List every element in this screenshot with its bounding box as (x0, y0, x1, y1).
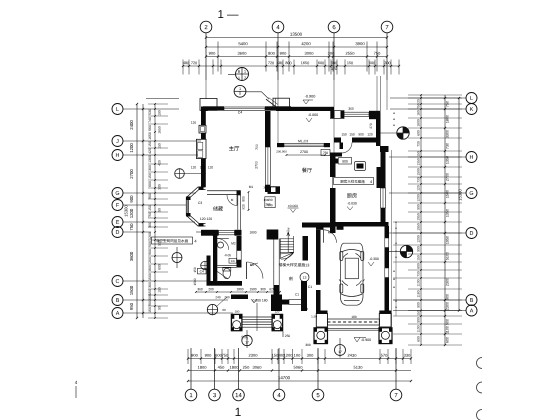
svg-text:270: 270 (369, 123, 373, 129)
svg-text:800: 800 (285, 61, 291, 65)
garage apron wall piece (277, 300, 289, 305)
svg-text:C1: C1 (295, 292, 299, 296)
svg-text:2700: 2700 (255, 161, 259, 169)
svg-text:2430: 2430 (348, 353, 358, 358)
detail marker circle B17 top (236, 68, 249, 81)
svg-text:3600: 3600 (238, 51, 248, 56)
svg-text:±0.000: ±0.000 (288, 204, 298, 208)
svg-text:150: 150 (417, 310, 421, 316)
svg-text:620: 620 (269, 287, 275, 291)
grid bubble L right (466, 93, 477, 104)
svg-text:B: B (116, 298, 120, 304)
svg-text:1500: 1500 (417, 168, 421, 176)
storage east wall double line (237, 195, 239, 230)
svg-text:1800: 1800 (230, 365, 240, 370)
corner column box top-left (200, 99, 217, 111)
main hall top wall (203, 106, 224, 110)
svg-text:E: E (116, 220, 120, 226)
garage apron lines (328, 327, 380, 329)
svg-text:上: 上 (286, 227, 291, 232)
svg-text:300: 300 (384, 61, 390, 65)
svg-text:150: 150 (148, 141, 152, 147)
svg-text:240: 240 (215, 295, 220, 299)
svg-text:250: 250 (285, 334, 291, 338)
svg-text:900: 900 (191, 353, 198, 358)
svg-text:500: 500 (148, 241, 152, 247)
svg-text:A: A (470, 308, 474, 314)
stair treads (280, 238, 293, 240)
kitchen counter block (377, 167, 381, 188)
vestibule west outer wall (207, 256, 211, 286)
grid bubble E left (112, 217, 123, 228)
svg-text:1: 1 (239, 87, 241, 91)
grid bubble H left (112, 150, 123, 161)
grid line D right segment (196, 231, 211, 233)
svg-text:750: 750 (148, 212, 152, 218)
svg-text:5400: 5400 (238, 41, 248, 46)
svg-text:360: 360 (197, 287, 203, 291)
svg-text:330: 330 (404, 353, 411, 358)
grid bubble A right (466, 305, 477, 316)
svg-text:200: 200 (148, 257, 152, 263)
svg-text:1800: 1800 (249, 230, 256, 234)
left section marker circle (172, 253, 182, 263)
svg-text:3600: 3600 (129, 251, 134, 261)
svg-text:C1: C1 (308, 285, 312, 289)
bay junction blocks (199, 187, 204, 190)
svg-text:2550: 2550 (346, 51, 356, 56)
left dim chain fine (154, 104, 156, 318)
top dim line total 13500 (206, 37, 387, 39)
svg-text:17: 17 (338, 350, 342, 354)
bathroom top wall piers and window (212, 230, 219, 236)
svg-text:720: 720 (191, 61, 197, 65)
svg-text:厨房: 厨房 (347, 192, 357, 199)
grid bubble 2 top (200, 21, 212, 33)
svg-text:3000: 3000 (305, 51, 315, 56)
svg-text:1.50: 1.50 (311, 314, 317, 318)
svg-text:800: 800 (158, 264, 162, 270)
top grid stems (205, 33, 207, 80)
svg-text:300: 300 (305, 343, 311, 347)
svg-text:ML,C3: ML,C3 (298, 139, 308, 143)
bathroom mid divider (217, 265, 236, 267)
svg-text:500: 500 (331, 61, 337, 65)
main hall left wall lower (201, 159, 206, 188)
svg-text:900: 900 (129, 195, 134, 203)
svg-text:600: 600 (148, 181, 152, 187)
garage left wall (316, 230, 321, 285)
dining-kitchen wall (330, 156, 336, 177)
svg-text:H: H (116, 153, 120, 159)
svg-text:D: D (470, 231, 474, 237)
garage door dashed strip (328, 319, 380, 325)
svg-text:150: 150 (341, 132, 347, 136)
stair top pier (267, 230, 279, 240)
svg-text:1800: 1800 (198, 365, 208, 370)
stair west edge (279, 239, 281, 260)
entry center line (256, 303, 258, 331)
section marker right upper (397, 127, 409, 139)
svg-text:1200: 1200 (148, 232, 152, 240)
svg-text:2700: 2700 (129, 169, 134, 179)
svg-text:90: 90 (158, 306, 162, 310)
svg-text:1800: 1800 (417, 119, 421, 127)
storage corner bay walls outer (186, 187, 205, 226)
garage top door arc M (324, 230, 337, 243)
svg-text:730: 730 (446, 143, 450, 149)
car in garage (339, 243, 365, 305)
svg-text:300: 300 (148, 165, 152, 171)
svg-text:储藏: 储藏 (213, 205, 223, 212)
garage bottom pier boxes (316, 311, 328, 315)
svg-text:4200: 4200 (301, 41, 311, 46)
terrace window band right (344, 112, 369, 116)
bay window glazing lines (187, 200, 189, 214)
svg-text:1200: 1200 (417, 235, 421, 243)
svg-text:250: 250 (243, 365, 250, 370)
svg-text:3900: 3900 (355, 41, 365, 46)
grid bubble B left (112, 295, 123, 306)
bottom dim line total 14700 (188, 380, 411, 382)
svg-text:300: 300 (260, 287, 266, 291)
svg-text:H: H (470, 155, 474, 161)
svg-text:900: 900 (417, 302, 421, 308)
svg-text:1100: 1100 (417, 325, 421, 332)
grid line 6 into plan (333, 80, 335, 156)
svg-text:150: 150 (158, 287, 162, 293)
garage porch left column (314, 328, 328, 344)
svg-text:900: 900 (417, 246, 421, 252)
svg-text:30: 30 (263, 185, 267, 189)
svg-text:C3: C3 (198, 201, 202, 205)
svg-text:L: L (116, 107, 119, 113)
svg-text:G: G (469, 191, 473, 197)
grid bubble 7 bottom (390, 389, 402, 401)
svg-text:1: 1 (238, 76, 240, 80)
left wall niche box (196, 139, 206, 158)
svg-text:2400: 2400 (129, 120, 134, 130)
svg-text:150: 150 (417, 255, 421, 261)
bathroom toilet (223, 268, 231, 278)
main hall left wall mid (201, 133, 206, 139)
svg-text:1500: 1500 (249, 287, 256, 291)
dining west window band (266, 147, 271, 185)
svg-text:1200: 1200 (284, 353, 294, 358)
svg-text:420: 420 (158, 160, 162, 166)
grid bubble F left (112, 200, 123, 211)
garage right wall (385, 226, 390, 311)
svg-text:560: 560 (148, 125, 152, 131)
svg-text:J: J (116, 139, 119, 145)
terrace chamfer wall (266, 99, 276, 107)
svg-text:14: 14 (235, 392, 242, 399)
svg-text:1300: 1300 (148, 155, 152, 163)
svg-text:150: 150 (347, 61, 353, 65)
svg-text:900: 900 (148, 249, 152, 255)
porch right column (272, 314, 283, 330)
svg-text:90: 90 (158, 208, 162, 212)
svg-text:7: 7 (244, 76, 246, 80)
main hall right wall (265, 111, 271, 147)
svg-text:900: 900 (358, 132, 364, 136)
svg-text:3060: 3060 (253, 365, 263, 370)
svg-text:480: 480 (277, 61, 283, 65)
left note box: bathroom same-floor see plumbing dwg 4 (152, 237, 193, 244)
svg-text:150: 150 (148, 289, 152, 295)
svg-text:150: 150 (193, 267, 197, 273)
svg-text:1 —: 1 — (217, 9, 239, 21)
bathroom bottom wall (207, 281, 243, 286)
stair up arrow (287, 233, 289, 252)
storage corner bay walls inner (189, 190, 206, 224)
svg-text:G: G (115, 191, 119, 197)
vestibule south wall (231, 295, 248, 300)
svg-text:M: M (231, 198, 234, 202)
svg-text:900: 900 (417, 317, 421, 323)
kitchen note box: see dwg 4 (334, 178, 374, 185)
grid bubble G left (112, 188, 123, 199)
svg-text:900: 900 (148, 300, 152, 306)
bottom dim extension lines (187, 349, 189, 364)
top-right wall extension lines (376, 76, 378, 113)
svg-text:1100: 1100 (417, 279, 421, 286)
west wall window tag C4 box (198, 268, 207, 274)
right grid lines (390, 97, 466, 99)
svg-text:120: 120 (208, 165, 214, 169)
svg-text:1350: 1350 (446, 209, 450, 217)
svg-text:800: 800 (242, 196, 246, 202)
left dim chain total 15300 (136, 104, 138, 318)
svg-text:1500: 1500 (446, 190, 450, 198)
svg-text:1500: 1500 (193, 278, 197, 285)
svg-text:480: 480 (183, 61, 189, 65)
grid bubble 3 bottom (209, 389, 221, 401)
svg-text:150: 150 (349, 132, 355, 136)
storage north wall double line (207, 190, 240, 192)
svg-text:180: 180 (417, 110, 421, 116)
right dim chain fine (420, 95, 422, 345)
bathroom right wall (237, 236, 242, 251)
svg-text:1200: 1200 (129, 208, 134, 218)
grid line 7 into plan (386, 80, 388, 110)
svg-text:-0.300: -0.300 (369, 257, 379, 261)
svg-text:C4: C4 (238, 110, 243, 114)
svg-text:920: 920 (242, 204, 246, 210)
detail marker circle 1 top-left (234, 85, 246, 97)
svg-text:190: 190 (158, 110, 162, 116)
svg-text:M1: M1 (249, 185, 254, 189)
svg-text:150: 150 (148, 205, 152, 211)
svg-text:1100: 1100 (446, 326, 450, 334)
svg-text:120: 120 (191, 165, 197, 169)
svg-text:200,900: 200,900 (276, 149, 287, 153)
divider door arc (340, 143, 344, 150)
left wall section marker (175, 169, 185, 179)
svg-text:1200: 1200 (129, 143, 134, 153)
terrace right pier (369, 111, 380, 119)
svg-text:900: 900 (148, 193, 152, 199)
small dim row under bathroom (196, 291, 280, 293)
corner column box at grid4 (273, 98, 290, 110)
right dim chain main (444, 95, 446, 345)
svg-text:150: 150 (417, 151, 421, 157)
label box 190 590 (265, 197, 275, 208)
grid bubble D right (466, 228, 477, 239)
svg-text:360: 360 (348, 107, 354, 111)
svg-text:900: 900 (209, 51, 216, 56)
bathroom label box C4 (229, 258, 237, 263)
svg-text:1650: 1650 (148, 132, 152, 140)
svg-text:L: L (470, 96, 473, 102)
storage south wall (201, 230, 213, 236)
svg-text:C: C (116, 279, 120, 285)
svg-text:900: 900 (280, 51, 287, 56)
svg-text:200: 200 (208, 287, 214, 291)
svg-text:740: 740 (148, 117, 152, 123)
svg-text:50: 50 (305, 307, 309, 311)
grid bubble 5 bottom (312, 389, 324, 401)
svg-text:2300: 2300 (249, 353, 259, 358)
top dim line row4 (183, 65, 399, 67)
room divider wall y140 (334, 138, 341, 143)
svg-text:1500: 1500 (129, 285, 134, 295)
svg-text:-0.05: -0.05 (224, 253, 231, 257)
svg-text:5130: 5130 (354, 365, 364, 370)
grid bubble C left (112, 276, 123, 287)
svg-text:800: 800 (148, 265, 152, 271)
bathroom upper door arc (217, 239, 229, 251)
grid bubble L left (112, 104, 123, 115)
top dim extension lines row3 (217, 42, 219, 72)
svg-text:非卫生间同层见水施: 非卫生间同层见水施 (156, 238, 189, 243)
svg-text:15300: 15300 (458, 189, 463, 201)
entry door N2 (246, 262, 248, 279)
svg-text:1800: 1800 (236, 287, 243, 291)
svg-text:3300: 3300 (446, 130, 450, 138)
porch steps (242, 316, 272, 318)
svg-text:厨房大样见建施: 厨房大样见建施 (340, 180, 365, 184)
svg-text:13: 13 (303, 276, 307, 280)
svg-text:170: 170 (331, 67, 337, 71)
svg-text:420: 420 (148, 148, 152, 154)
svg-text:1650: 1650 (301, 61, 309, 65)
grid bubble 3a bottom (233, 389, 245, 401)
svg-text:700: 700 (255, 144, 259, 150)
grid bubble D left (112, 227, 123, 238)
svg-text:600: 600 (417, 336, 421, 342)
svg-text:1350: 1350 (417, 158, 421, 166)
svg-text:120: 120 (191, 121, 197, 125)
left entry marker circle (207, 304, 217, 314)
svg-text:180: 180 (235, 309, 240, 313)
svg-text:900: 900 (417, 204, 421, 210)
garage right wall window tags (385, 238, 389, 248)
storage door arc (227, 195, 237, 206)
svg-text:1: 1 (235, 405, 242, 419)
left extension h-lines (148, 103, 168, 105)
svg-text:15300: 15300 (124, 205, 129, 217)
svg-text:1650: 1650 (158, 126, 162, 134)
svg-text:200: 200 (265, 202, 270, 206)
svg-text:300: 300 (148, 282, 152, 288)
svg-text:2700: 2700 (300, 150, 308, 154)
garage top wall (316, 225, 324, 230)
right extension h-lines (408, 94, 462, 96)
stair winders (280, 253, 293, 255)
terrace junction window box (331, 111, 345, 119)
svg-text:1950: 1950 (446, 236, 450, 244)
hall east wall lower (274, 285, 280, 311)
svg-text:-0.900: -0.900 (361, 338, 371, 342)
svg-text:C4: C4 (231, 259, 235, 263)
svg-text:120: 120 (367, 132, 373, 136)
svg-text:A: A (116, 311, 120, 317)
svg-text:主厅: 主厅 (229, 145, 240, 152)
grid bubble G right (466, 188, 477, 199)
under-stair wall (301, 281, 307, 311)
svg-text:N2: N2 (250, 263, 254, 267)
grid bubble A left (112, 308, 123, 319)
svg-text:300: 300 (158, 184, 162, 190)
left wall window box 1 (199, 125, 206, 133)
right edge partial circles (477, 358, 482, 369)
grid line 4 into plan (277, 80, 279, 143)
svg-text:1800: 1800 (446, 115, 450, 123)
svg-text:1500: 1500 (148, 273, 152, 281)
kitchen bottom wall (302, 223, 330, 228)
svg-text:5100: 5100 (446, 252, 450, 260)
svg-text:1950: 1950 (417, 223, 421, 231)
bathroom sink circle (218, 242, 224, 248)
svg-text:750: 750 (374, 51, 381, 56)
svg-text:K: K (470, 107, 474, 113)
svg-text:900: 900 (446, 294, 450, 300)
svg-text:190: 190 (263, 198, 268, 202)
svg-text:20: 20 (417, 99, 421, 103)
grid line 2 into plan (205, 80, 207, 99)
svg-text:M6: M6 (328, 230, 333, 234)
svg-text:750: 750 (323, 151, 329, 155)
svg-text:C4: C4 (200, 269, 204, 273)
kitchen sink (355, 162, 366, 171)
grid bubble B right (466, 295, 477, 306)
svg-text:17: 17 (245, 340, 249, 344)
kitchen top wall (330, 153, 342, 157)
left dim chain main (142, 104, 144, 318)
svg-text:720: 720 (268, 61, 274, 65)
svg-text:800: 800 (417, 263, 421, 269)
svg-text:570: 570 (381, 353, 388, 358)
terrace north wall (276, 107, 334, 111)
top dim line row3 (206, 56, 387, 58)
grid bubble 4 top (272, 21, 284, 33)
svg-text:1180: 1180 (417, 290, 421, 297)
porch section marker (242, 335, 252, 345)
bottom dim line row1 (188, 358, 411, 360)
kitchen door dim 900 (333, 159, 338, 164)
grid bubble H right (466, 152, 477, 163)
svg-text:530: 530 (148, 109, 152, 115)
svg-text:14700: 14700 (278, 375, 291, 380)
svg-text:750: 750 (129, 223, 134, 231)
svg-text:730: 730 (417, 271, 421, 277)
bathroom lower door arc (216, 272, 228, 283)
garage porch right column (379, 328, 392, 344)
svg-text:餐厅: 餐厅 (302, 167, 312, 174)
grid bubble 1 bottom (185, 389, 197, 401)
kitchen right wall (380, 146, 389, 152)
